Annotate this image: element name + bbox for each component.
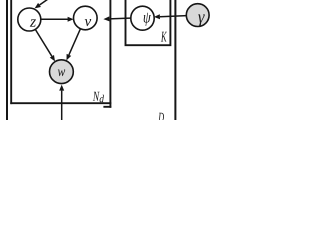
node z [18, 8, 41, 31]
wire arrow into w from below (cropped source) [59, 85, 64, 120]
glyph K [161, 32, 167, 42]
plate K [126, 0, 171, 45]
wire arrow v to w [67, 29, 81, 60]
plate N_d left edge [10, 0, 12, 104]
glyph v [85, 19, 92, 26]
wire arrow z to v [41, 17, 74, 22]
wire arrow z to w [35, 29, 55, 61]
glyph D [158, 113, 164, 122]
node gamma (observed) [186, 4, 209, 27]
glyph γ [198, 14, 205, 26]
node w (observed) [50, 60, 74, 84]
plate D right edge (cropped plate) [174, 0, 176, 120]
plate corner stub at N_d bottom-right [103, 106, 111, 108]
glyph N [93, 92, 100, 101]
glyph w [58, 69, 65, 76]
plate N_d bottom edge [10, 102, 111, 104]
glyph ψ [144, 13, 151, 26]
glyph z [30, 19, 36, 26]
plate outer-left edge (cropped plate) [6, 0, 8, 120]
node psi [131, 6, 154, 30]
wire arrow gamma to psi [154, 14, 187, 19]
node v [74, 6, 98, 30]
plate N_d right edge [109, 0, 111, 108]
glyph d [100, 95, 104, 102]
wire arrow psi to v (head stops at N_d plate border) [103, 16, 130, 21]
wire arrow into z from top-right (cropped source) [35, 0, 49, 8]
